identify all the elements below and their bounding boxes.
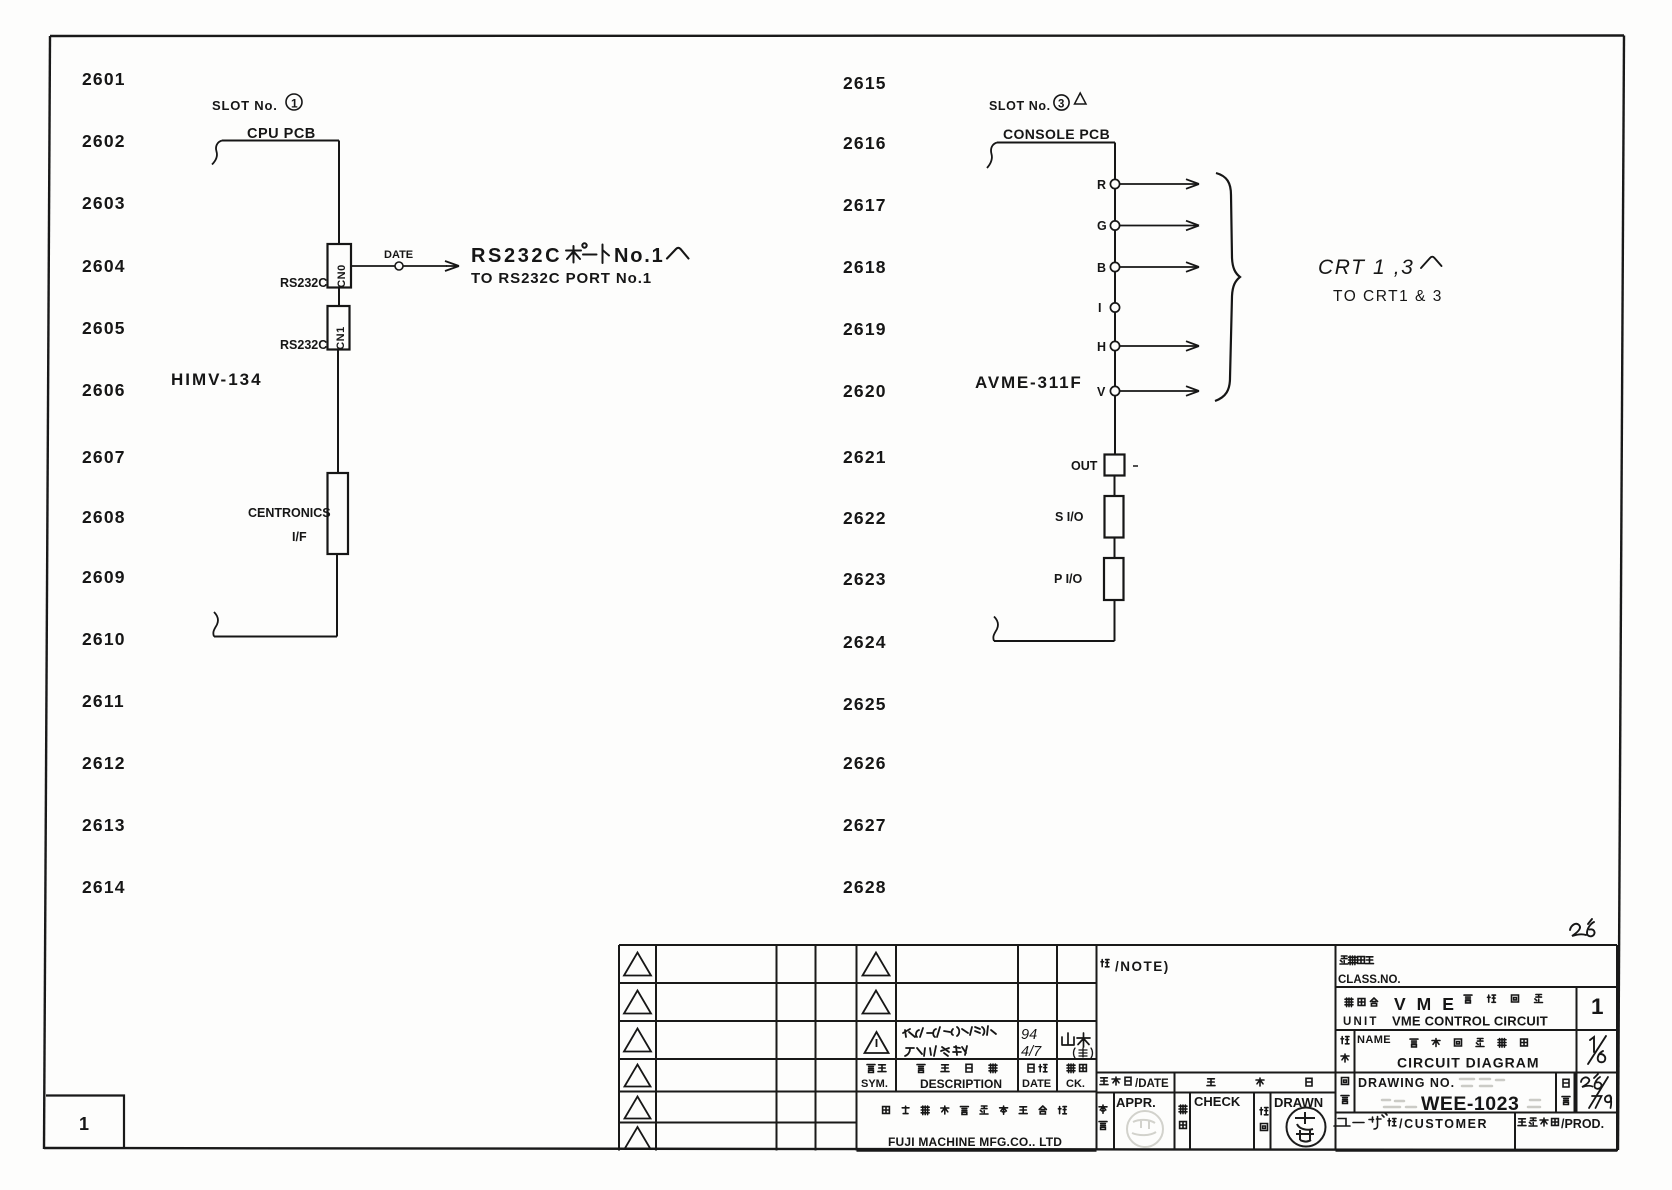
svg-text:NAME: NAME [1357,1034,1391,1046]
wire CN0 to CN1 [338,288,340,307]
right info section rows [1616,945,1618,1151]
header SYM cell [867,1065,875,1073]
wire S I/O to P I/O [1114,538,1116,559]
svg-text:G: G [1097,219,1107,233]
DRAWING NO cell [1341,1074,1611,1115]
wire vertical CPU to CN0 [338,141,340,245]
APPR cell [1099,1095,1163,1147]
svg-text:WEE-1023: WEE-1023 [1421,1093,1519,1115]
revision triangle A4 [625,1065,651,1087]
svg-text:2612: 2612 [82,753,126,773]
revision triangle A5 [625,1097,651,1119]
svg-text:RS232C: RS232C [471,245,562,267]
middle row numbers 2615-2628 [843,73,887,897]
svg-text:B: B [1097,261,1106,275]
handwritten yamamoto check [1062,1033,1090,1047]
label CRT 1,3 he (handwritten) [1318,256,1442,279]
svg-text:CK.: CK. [1066,1078,1085,1090]
hook left end right bottom rail [993,617,998,642]
svg-text:2606: 2606 [82,380,126,400]
svg-text:P I/O: P I/O [1054,572,1083,586]
svg-text:UNIT: UNIT [1343,1016,1379,1028]
svg-text:DESCRIPTION: DESCRIPTION [920,1077,1002,1091]
tiny dash right of OUT [1133,465,1138,467]
svg-text:CN1: CN1 [335,326,347,350]
table B columns [895,945,897,1092]
svg-text:2615: 2615 [843,73,887,93]
svg-text:2611: 2611 [82,691,125,711]
svg-text:I/F: I/F [292,530,307,544]
arrowhead DATE [445,261,459,271]
label SLOT No. 1 [212,94,302,113]
company name kanji (Fuji Kikai Seizou KK) [883,1107,890,1114]
pin V [1097,385,1199,399]
wire CN1 to CENTRONICS [337,350,339,474]
svg-text:4/7: 4/7 [1021,1044,1042,1060]
svg-text:2607: 2607 [82,447,126,467]
svg-text:2601: 2601 [82,69,126,89]
connector CN0 [328,244,352,288]
svg-text:V: V [1097,385,1106,399]
wire OUT to S I/O [1114,476,1116,497]
label RS232C port No.1 (jp) [471,243,689,267]
handwritten revision note line1 (gaibu C/C taiou no tame) [903,1026,996,1037]
svg-text:CRT 1 ,3: CRT 1 ,3 [1318,256,1414,279]
page no kanji [1563,1079,1569,1087]
node circle on DATE wire [395,262,403,270]
pin I (no arrow) [1098,301,1120,315]
left row numbers 2601-2614 [82,69,126,897]
svg-text:SYM.: SYM. [861,1078,888,1090]
svg-text:VME: VME [1394,994,1465,1014]
pin H [1097,340,1199,354]
revision triangle A3 [624,1029,651,1052]
svg-text:CHECK: CHECK [1194,1094,1241,1109]
svg-text:CIRCUIT DIAGRAM: CIRCUIT DIAGRAM [1397,1055,1540,1071]
connector S I/O box [1105,496,1124,538]
svg-text:2619: 2619 [843,319,887,339]
svg-text:HIMV-134: HIMV-134 [171,370,263,389]
wire DATE from CN0 [351,265,447,267]
svg-text:2617: 2617 [843,195,887,215]
handwritten 94 4/7 date [1021,1027,1042,1060]
svg-text:2621: 2621 [843,447,887,467]
revision warning triangle B3 [865,1032,889,1053]
svg-text:S I/O: S I/O [1055,510,1084,524]
svg-text:2602: 2602 [82,131,126,151]
connector OUT box [1105,455,1125,476]
title block grid lines [619,945,1617,1151]
svg-text:2624: 2624 [843,632,887,652]
revision triangle marker [1075,93,1087,104]
svg-text:R: R [1097,178,1106,192]
svg-text:/NOTE): /NOTE) [1115,959,1170,974]
revision triangle A6 [625,1127,651,1149]
svg-text:2616: 2616 [843,133,887,153]
svg-text:2623: 2623 [843,569,887,589]
drawn hanko stamp [1287,1108,1326,1147]
handwritten revision note line2 (slot henkou) [905,1046,967,1056]
svg-text:DATE: DATE [384,249,413,261]
svg-text:2628: 2628 [843,877,887,897]
NOTE box [1335,945,1337,1151]
pin G [1097,219,1199,233]
wire bottom rail left circuit [214,636,337,638]
revision triangle B1 [863,953,890,976]
brace to CRT [1215,173,1240,401]
svg-text:No.1: No.1 [614,245,665,267]
UNIT cell [1343,994,1604,1029]
CUSTOMER cell [1334,1113,1604,1131]
katakana po-o-to [566,243,609,263]
revision triangle A2 [624,991,651,1014]
svg-text:2613: 2613 [82,815,126,835]
connector CENTRONICS I/F box [328,473,349,554]
svg-text:2622: 2622 [843,508,887,528]
svg-text:/DATE: /DATE [1135,1078,1169,1090]
svg-text:2614: 2614 [82,877,126,897]
svg-text:2603: 2603 [82,193,126,213]
NAME cell [1341,1034,1606,1071]
revision triangle A1 [624,953,651,976]
pin B [1097,261,1199,275]
svg-text:SLOT No.: SLOT No. [212,98,278,113]
svg-text:2626: 2626 [843,753,887,773]
date/appr dividers [1174,1073,1176,1151]
svg-text:CENTRONICS: CENTRONICS [248,506,331,520]
sheet number box bottom left [46,1096,124,1149]
svg-text:TO RS232C PORT No.1: TO RS232C PORT No.1 [471,270,652,287]
wire CONSOLE top rail [997,142,1115,144]
handwritten 26/79 [1581,1074,1611,1108]
svg-text:/PROD.: /PROD. [1561,1117,1604,1131]
svg-text:94: 94 [1021,1027,1037,1043]
svg-text:2620: 2620 [843,381,887,401]
hook left end bottom rail [213,612,218,637]
svg-text:2627: 2627 [843,815,887,835]
svg-text:AVME-311F: AVME-311F [975,373,1083,392]
NOTE label [1101,959,1170,974]
svg-text:FUJI MACHINE MFG.CO.. LTD: FUJI MACHINE MFG.CO.. LTD [888,1135,1062,1149]
revision triangle B2 [863,991,890,1014]
header DATE cell [1028,1064,1034,1072]
svg-text:RS232C: RS232C [280,276,327,290]
company cell [857,1150,1097,1152]
svg-text:2604: 2604 [82,256,126,276]
table A row lines [619,982,1097,984]
connector P I/O box [1104,558,1124,600]
wire CPU PCB top rail [222,140,339,142]
revision table A outline and columns [618,945,620,1151]
svg-text:H: H [1097,340,1106,354]
label SLOT No. 3 [989,95,1069,113]
svg-text:2610: 2610 [82,629,126,649]
wire console vertical [1114,143,1116,455]
svg-text:/CUSTOMER: /CUSTOMER [1399,1117,1488,1131]
svg-text:I: I [1098,301,1101,315]
svg-text:1: 1 [291,97,298,111]
CLASS NO cell [1338,956,1401,986]
svg-text:CLASS.NO.: CLASS.NO. [1338,974,1401,986]
DRAWN cell [1260,1095,1326,1147]
wire bottom rail right circuit [994,640,1115,642]
svg-text:RS232C: RS232C [280,338,327,352]
svg-text:SLOT No.: SLOT No. [989,99,1051,113]
svg-text:1: 1 [79,1114,89,1134]
wire P I/O down [1114,600,1116,641]
svg-text:2609: 2609 [82,567,126,587]
svg-text:2608: 2608 [82,507,126,527]
handwritten 26 top right [1570,919,1594,936]
svg-text:CN0: CN0 [336,264,348,288]
header CK cell [1067,1064,1075,1073]
svg-text:APPR.: APPR. [1116,1095,1156,1110]
svg-text:OUT: OUT [1071,459,1098,473]
faint approval stamp [1127,1111,1163,1147]
hook left end console rail [987,143,997,169]
right info dividers [1576,987,1578,1113]
CHECK cell [1179,1094,1241,1128]
svg-text:2618: 2618 [843,257,887,277]
svg-text:1: 1 [1591,994,1604,1019]
DATE header row labels [1100,1077,1312,1090]
svg-text:DRAWING NO.: DRAWING NO. [1358,1076,1455,1090]
svg-text:VME CONTROL CIRCUIT: VME CONTROL CIRCUIT [1392,1014,1548,1029]
faint pencil smudges [1382,1079,1540,1107]
svg-text:DATE: DATE [1022,1078,1051,1090]
svg-text:2625: 2625 [843,694,887,714]
handwritten 1/6 [1588,1036,1606,1064]
svg-text:3: 3 [1058,99,1064,111]
svg-text:CONSOLE PCB: CONSOLE PCB [1003,126,1110,142]
svg-text:2605: 2605 [82,318,126,338]
svg-text:TO CRT1 & 3: TO CRT1 & 3 [1333,288,1443,305]
katakana he [667,248,689,259]
connector CN1 [328,306,350,350]
top edge of title block [619,944,1617,946]
header DESCRIPTION cell [917,1065,925,1073]
pin R [1097,178,1199,192]
svg-text:DRAWN: DRAWN [1274,1095,1323,1110]
hook left end of CPU rail [212,141,222,165]
wire CENTRONICS down [336,554,338,637]
